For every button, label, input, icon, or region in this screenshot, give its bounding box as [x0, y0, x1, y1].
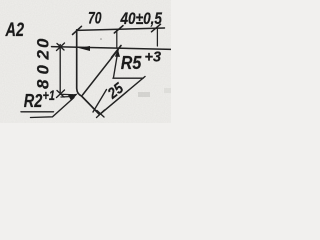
25 extension line steep	[93, 90, 107, 113]
surface line	[52, 47, 172, 50]
25 dimension line	[101, 77, 146, 114]
R5 leader	[114, 51, 119, 78]
svg-text:A2: A2	[5, 20, 25, 41]
text labels	[5, 9, 163, 111]
X tick at x60 on surface line	[57, 43, 65, 51]
R2 leader horizontal	[61, 96, 72, 99]
bold slash at x117	[112, 46, 122, 58]
part edge vertical with R2 corner	[77, 30, 82, 96]
tick at x117	[114, 26, 123, 33]
svg-text:70: 70	[88, 9, 102, 28]
paper background	[0, 0, 171, 123]
R2 arrowhead	[68, 94, 78, 101]
X tick bottom of chain	[57, 90, 65, 98]
extension line x117	[116, 30, 118, 48]
chain dimension vertical x60	[59, 45, 61, 95]
R5 shelf	[113, 77, 143, 79]
dimension line top	[77, 28, 165, 30]
svg-text:40±0,5: 40±0,5	[120, 10, 163, 28]
tick at x156	[152, 24, 161, 32]
bevel face line	[83, 50, 119, 95]
R5 leader arrowhead	[115, 50, 120, 57]
R2 leader diagonal	[31, 98, 75, 118]
svg-text:R5: R5	[121, 53, 142, 73]
svg-text:+3: +3	[145, 49, 162, 66]
extension line x157	[156, 29, 158, 46]
arrow on surface line pointing left	[79, 46, 90, 51]
R2 shelf	[21, 111, 54, 113]
chain extension bottom	[60, 93, 73, 96]
tick at x77	[73, 26, 82, 34]
X tick at chamfer end	[97, 110, 105, 118]
svg-text:+1: +1	[43, 87, 56, 103]
svg-text:R2: R2	[24, 91, 43, 111]
chamfer edge	[82, 96, 100, 115]
scan smudges	[138, 92, 150, 97]
